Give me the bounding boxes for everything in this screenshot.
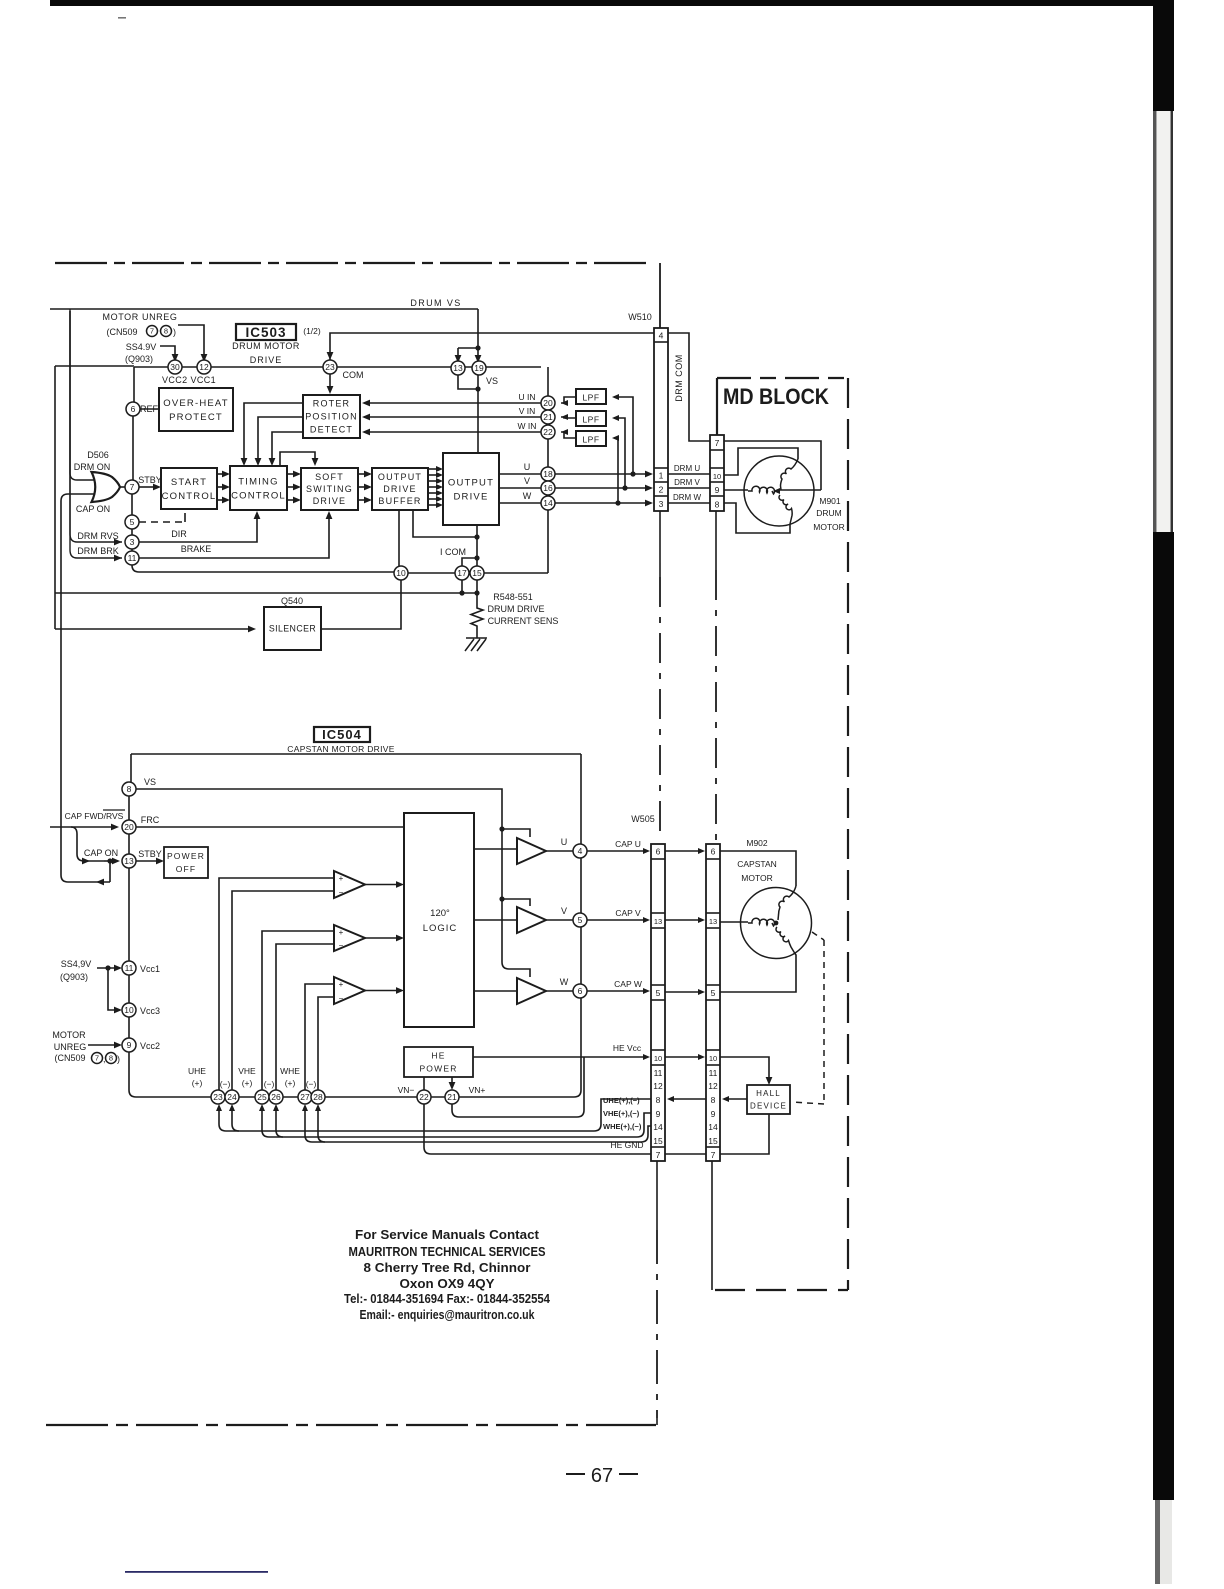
wire LPF1 to pin 20 — [561, 397, 576, 403]
pin 20 FRC — [122, 820, 136, 834]
dashed stub from pin 5 — [139, 521, 184, 523]
pin 13 STBY (capstan) — [122, 854, 136, 868]
svg-text:CAP W: CAP W — [614, 979, 642, 989]
svg-text:M901: M901 — [819, 496, 841, 506]
svg-text:4: 4 — [578, 846, 583, 856]
pin 27 WHE+ — [298, 1090, 312, 1104]
svg-text:DRUM: DRUM — [816, 508, 842, 518]
wire buffer stub to I COM node — [413, 510, 477, 537]
CAP column vertical — [574, 858, 581, 1097]
wire OUTPUT DRIVE W to connector pin 3 — [499, 502, 646, 504]
wire STBY to START CONTROL — [139, 486, 155, 488]
node dot SS4.9V branch — [105, 965, 110, 970]
buffer triangle W — [517, 978, 546, 1004]
vertical cable W510 to W505 left — [659, 511, 661, 577]
wire HALL bottom to pin7 rail — [720, 1114, 769, 1154]
wire logic out W to buffer3 — [474, 990, 517, 992]
node dot DRM U to LPF1 — [630, 471, 635, 476]
capstan motor center dot — [774, 921, 779, 926]
node dot rail 17 — [459, 590, 464, 595]
wire buffer V to pin 5 — [546, 919, 573, 921]
svg-text:MOTOR: MOTOR — [52, 1030, 86, 1040]
svg-text:W: W — [523, 491, 532, 501]
wire CAP ON riser to junction — [109, 861, 111, 882]
svg-text:VN+: VN+ — [469, 1085, 486, 1095]
branch CAP FWD/RVS down to STBY junction — [71, 827, 104, 861]
wire OUTPUT DRIVE U to connector pin 1 — [499, 473, 646, 475]
svg-text:OUTPUT: OUTPUT — [448, 477, 494, 488]
drum motor connector body — [710, 435, 724, 511]
IC pin column vertical 6-7-5-3-11 — [132, 402, 133, 551]
svg-text:Vcc3: Vcc3 — [140, 1006, 160, 1016]
overline on RVS — [103, 809, 125, 811]
pin 22 W IN — [541, 425, 555, 439]
svg-text:SS4.9V: SS4.9V — [126, 342, 157, 352]
svg-text:19: 19 — [474, 363, 484, 373]
svg-text:DEVICE: DEVICE — [750, 1102, 787, 1111]
node dot I COM upper — [474, 534, 479, 539]
wire below pin13 joining pin19 column — [458, 375, 478, 389]
arrow into pin 13 — [455, 355, 462, 363]
svg-text:(Q903): (Q903) — [60, 972, 88, 982]
svg-text:8 Cherry Tree Rd, Chinnor: 8 Cherry Tree Rd, Chinnor — [364, 1260, 531, 1275]
svg-text:15: 15 — [653, 1136, 663, 1146]
svg-text:(+): (+) — [285, 1078, 296, 1088]
svg-text:UHE: UHE — [188, 1066, 206, 1076]
svg-text:8: 8 — [711, 1095, 716, 1105]
svg-text:SS4,9V: SS4,9V — [61, 959, 92, 969]
block ROTER POSITION DETECT — [303, 395, 360, 438]
pin 11 Vcc1 — [122, 961, 136, 975]
block SOFT SWITING DRIVE — [301, 468, 358, 510]
U-IN column vertical — [547, 410, 549, 467]
svg-text:SILENCER: SILENCER — [269, 624, 316, 634]
svg-text:4: 4 — [659, 331, 664, 341]
svg-text:3: 3 — [130, 537, 135, 547]
wire W IN to ROTER — [368, 431, 541, 433]
pin 13 VS — [451, 361, 465, 375]
wire rail y367 corner down through U-IN column — [547, 367, 549, 396]
IC503 title box — [236, 324, 296, 340]
svg-text:13: 13 — [453, 363, 463, 373]
wire COM line from pin4 down into pin 23 — [330, 333, 654, 360]
svg-text:9: 9 — [711, 1109, 716, 1119]
ground symbol — [465, 638, 487, 651]
svg-text:21: 21 — [447, 1092, 457, 1102]
LPF box 2 — [576, 411, 606, 426]
svg-text:11: 11 — [654, 1068, 663, 1078]
wire from SS4.9V to pin 30 — [160, 346, 175, 356]
wire pin1 to drum pin10 — [668, 473, 710, 475]
svg-text:M902: M902 — [746, 838, 768, 848]
svg-text:VS: VS — [144, 777, 156, 787]
svg-text:DRM COM: DRM COM — [674, 354, 684, 402]
wire REF to OVER-HEAT PROTECT — [140, 408, 159, 410]
svg-text:−: − — [339, 994, 344, 1003]
svg-text:OFF: OFF — [176, 864, 197, 874]
node dot CAP ON junction — [107, 858, 112, 863]
wire SS4.9V to pin 11 — [97, 967, 116, 969]
svg-text:Q540: Q540 — [281, 596, 303, 606]
wire W505 pin13 to MD pin13 — [665, 919, 699, 921]
svg-text:7: 7 — [150, 327, 154, 336]
svg-text:14: 14 — [653, 1122, 663, 1132]
block HE POWER — [404, 1047, 473, 1077]
pin 21 V IN — [541, 410, 555, 424]
wire top border corner down to W510 pin4 — [659, 263, 661, 328]
op-amp A1 — [334, 871, 365, 898]
svg-text:8: 8 — [127, 784, 132, 794]
pin 21 VN+ — [445, 1090, 459, 1104]
wire rail left drop to pin 8 — [130, 754, 132, 782]
svg-text:MD BLOCK: MD BLOCK — [723, 384, 829, 409]
pin 23 COM — [323, 360, 337, 374]
wire FRC to logic — [136, 826, 404, 828]
left vertical wire to OR-gate DRM ON input — [70, 309, 94, 480]
LPF box 3 — [576, 431, 606, 446]
node dot DRM W to LPF3 — [615, 500, 620, 505]
wire pin5 to W505 pin 13 — [587, 919, 644, 921]
wire op3 output to logic — [365, 990, 398, 992]
svg-text:STBY: STBY — [138, 849, 162, 859]
MD BLOCK right border — [847, 378, 849, 1290]
wire OR gate output to pin 7 — [120, 486, 125, 488]
wire LPF1 feedback from DRM U — [614, 397, 633, 474]
wire logic out V to buffer2 — [474, 919, 517, 921]
svg-text:15: 15 — [708, 1136, 718, 1146]
wire branch down to pin 10 — [108, 968, 116, 1010]
wire silencer input — [55, 628, 249, 630]
block SILENCER — [264, 607, 321, 650]
pin 6 W — [573, 984, 587, 998]
svg-text:23: 23 — [325, 362, 335, 372]
svg-text:120°: 120° — [430, 908, 450, 919]
svg-text:5: 5 — [656, 988, 661, 998]
wire VCC rail corner down to IC pin column — [133, 367, 135, 402]
wire pins 17 15 down to rail y593 — [462, 580, 477, 593]
pin 5 — [125, 515, 139, 529]
svg-text:SWITING: SWITING — [306, 484, 353, 494]
svg-text:13: 13 — [654, 917, 662, 926]
wire buffer bottom to pin10 — [398, 510, 400, 566]
svg-text:11: 11 — [709, 1068, 718, 1078]
svg-text:6: 6 — [656, 847, 661, 857]
svg-text:3: 3 — [659, 499, 664, 509]
svg-text:12: 12 — [708, 1081, 718, 1091]
capstan MD connector body — [706, 844, 720, 1161]
block 120 LOGIC — [404, 813, 474, 1027]
svg-text:ROTER: ROTER — [313, 399, 351, 409]
svg-text:67: 67 — [591, 1465, 613, 1487]
wire pin26 to op2- — [276, 944, 334, 1090]
svg-text:(−): (−) — [306, 1079, 317, 1089]
svg-text:MOTOR: MOTOR — [741, 873, 772, 883]
svg-text:27: 27 — [300, 1092, 310, 1102]
svg-text:LPF: LPF — [582, 415, 599, 425]
pin 23 UHE+ — [211, 1090, 225, 1104]
svg-text:IC503: IC503 — [245, 325, 286, 340]
svg-text:VHE(+),(−): VHE(+),(−) — [603, 1109, 640, 1118]
wire drum pin7 loop around motor — [724, 441, 821, 490]
svg-text:(−): (−) — [264, 1079, 275, 1089]
left vertical wire to BRAKE pin 11 — [70, 311, 122, 558]
svg-text:CAP U: CAP U — [615, 839, 641, 849]
svg-text:7: 7 — [715, 438, 720, 448]
svg-text:DRM W: DRM W — [673, 493, 701, 502]
svg-text:25: 25 — [257, 1092, 267, 1102]
svg-text:20: 20 — [543, 398, 553, 408]
wire V IN to ROTER — [368, 416, 541, 418]
svg-text:−: − — [339, 941, 344, 950]
svg-text:10: 10 — [396, 568, 406, 578]
svg-text:DRIVE: DRIVE — [250, 355, 283, 365]
svg-text:10: 10 — [124, 1005, 134, 1015]
small stray mark top left — [118, 17, 126, 19]
svg-text:6: 6 — [711, 847, 716, 857]
wire WHE rail to W505 row 14 — [305, 1110, 651, 1142]
wire DRUM VS drop to VS pins — [458, 309, 478, 356]
pin 5 V — [573, 913, 587, 927]
wire U IN to ROTER — [368, 402, 541, 404]
svg-text:CAP ON: CAP ON — [76, 504, 110, 514]
svg-text:UNREG: UNREG — [54, 1042, 87, 1052]
motor M901 lower winding — [779, 495, 792, 524]
node dot I COM lower — [474, 555, 479, 560]
wire VS column down to OUTPUT DRIVE top — [477, 375, 479, 453]
arrow into pin 19 — [475, 355, 482, 363]
wire VCC rail y367 through pins 30 12 23 13 19 — [134, 366, 541, 368]
svg-text:13: 13 — [124, 856, 134, 866]
resistor R548-551 — [471, 593, 483, 638]
page right black bar upper segment — [1153, 0, 1174, 111]
svg-text:U: U — [561, 837, 568, 847]
wire MD pin5 to capstan motor bottom coil — [720, 952, 796, 992]
wire VHE rail to W505 row 9 — [262, 1110, 651, 1137]
block OVER-HEAT PROTECT — [159, 388, 233, 431]
svg-text:5: 5 — [578, 915, 583, 925]
svg-text:DRM RVS: DRM RVS — [77, 531, 118, 541]
pin 11 BRAKE — [125, 551, 139, 565]
svg-text:BRAKE: BRAKE — [181, 544, 212, 554]
motor M901 center arrow — [773, 488, 780, 494]
svg-text:MOTOR UNREG: MOTOR UNREG — [103, 312, 178, 322]
capstan motor left winding — [748, 918, 775, 926]
svg-text:(−): (−) — [220, 1079, 231, 1089]
svg-text:18: 18 — [543, 469, 553, 479]
svg-text:UHE(+),(−): UHE(+),(−) — [603, 1096, 640, 1105]
wire UHE rail to W505 row 8 — [219, 1099, 651, 1131]
svg-text:LOGIC: LOGIC — [423, 923, 458, 934]
svg-text:9: 9 — [656, 1109, 661, 1119]
wire LPF2 to pin 21 — [561, 417, 576, 418]
svg-text:WHE(+),(−): WHE(+),(−) — [603, 1122, 642, 1131]
svg-text:22: 22 — [543, 427, 553, 437]
wire pin3 to drum pin8 — [668, 502, 710, 504]
svg-text:Oxon OX9 4QY: Oxon OX9 4QY — [400, 1276, 495, 1291]
page right black bar lower segment — [1153, 532, 1174, 1500]
wire drum pin8 loop to motor bottom coil — [724, 503, 790, 533]
wire VN+ loop to HE Vcc line — [452, 1057, 584, 1117]
op-amp A2 — [334, 925, 365, 951]
node dot rail 15 — [474, 590, 479, 595]
svg-text:8: 8 — [656, 1095, 661, 1105]
svg-text:VHE: VHE — [238, 1066, 256, 1076]
svg-text:PROTECT: PROTECT — [169, 412, 223, 423]
wire rail right drop through CAP U column — [580, 754, 582, 844]
wire HE POWER to W505 pin 10 — [473, 1056, 644, 1058]
MD BLOCK bottom border — [715, 1289, 848, 1291]
svg-text:10: 10 — [654, 1054, 662, 1063]
svg-text:D506: D506 — [87, 450, 109, 460]
svg-text:DRUM DRIVE: DRUM DRIVE — [487, 604, 544, 614]
svg-text:5: 5 — [130, 517, 135, 527]
svg-text:10: 10 — [709, 1054, 717, 1063]
pin 22 VN- — [417, 1090, 431, 1104]
svg-text:HE: HE — [431, 1050, 445, 1060]
svg-text:LPF: LPF — [582, 435, 599, 445]
svg-text:DRM ON: DRM ON — [74, 462, 111, 472]
svg-text:CAP FWD/RVS: CAP FWD/RVS — [65, 811, 124, 821]
svg-text:DRIVE: DRIVE — [313, 496, 347, 506]
page number 67 — [566, 1473, 585, 1475]
svg-text:Vcc1: Vcc1 — [140, 964, 160, 974]
pin 3 DIR — [125, 535, 139, 549]
pin 26 VHE- — [269, 1090, 283, 1104]
node dot VS branch1 — [499, 826, 504, 831]
wire LPF3 to pin 22 — [561, 432, 576, 438]
dashed link motor to hall device — [812, 932, 824, 940]
buffer triangle V — [517, 907, 546, 933]
svg-text:22: 22 — [419, 1092, 429, 1102]
wire HE POWER bottom to pin 22 — [423, 1077, 425, 1090]
svg-text:HE GND: HE GND — [610, 1140, 643, 1150]
svg-text:DRM V: DRM V — [674, 478, 700, 487]
svg-text:COM: COM — [343, 370, 364, 380]
svg-text:8: 8 — [715, 500, 720, 510]
svg-text:17: 17 — [457, 568, 467, 578]
svg-text:14: 14 — [543, 498, 553, 508]
svg-text:20: 20 — [124, 822, 134, 832]
pin 16 V — [541, 481, 555, 495]
LPF box 1 — [576, 389, 606, 404]
svg-text:(Q903): (Q903) — [125, 354, 153, 364]
left vertical wire CAP ON from OR gate down to capstan section — [61, 494, 110, 882]
pin 9 Vcc2 — [122, 1038, 136, 1052]
svg-text:9: 9 — [127, 1040, 132, 1050]
wire pin23 to op1+ — [219, 878, 334, 1090]
pin 8 VS (capstan) — [122, 782, 136, 796]
svg-text:DRIVE: DRIVE — [453, 491, 488, 502]
svg-text:CAPSTAN MOTOR DRIVE: CAPSTAN MOTOR DRIVE — [287, 744, 394, 754]
bridge wire TIMING to SOFT over top — [280, 452, 315, 466]
buffer triangle U — [517, 838, 546, 864]
wire pin24 to op1- — [232, 891, 334, 1090]
svg-text:8: 8 — [109, 1054, 113, 1063]
wire A: top horizontal DRUM VS wire — [50, 308, 478, 310]
svg-text:Vcc2: Vcc2 — [140, 1041, 160, 1051]
vertical cable MD right — [715, 511, 717, 570]
MD column below pin7 to MD bottom — [711, 1161, 713, 1290]
svg-text:DRM BRK: DRM BRK — [77, 546, 119, 556]
wire ROTER line V to TIMING drop — [258, 417, 303, 460]
svg-text:6: 6 — [578, 986, 583, 996]
svg-text:CONTROL: CONTROL — [231, 490, 286, 501]
svg-text:7: 7 — [711, 1150, 716, 1160]
svg-text:): ) — [173, 327, 176, 337]
motor M901 upper winding — [781, 459, 799, 490]
block TIMING CONTROL — [230, 466, 287, 510]
svg-text:CURRENT SENS: CURRENT SENS — [488, 616, 559, 626]
svg-text:(1/2): (1/2) — [303, 326, 321, 336]
wire OUTPUT DRIVE V to connector pin 2 — [499, 487, 646, 489]
svg-text:For Service Manuals Contact: For Service Manuals Contact — [355, 1227, 540, 1242]
svg-text:DRIVE: DRIVE — [383, 484, 417, 494]
block OUTPUT DRIVE (drum) — [443, 453, 499, 525]
wire pin4 to W505 pin 6 — [587, 850, 644, 852]
wire DIR to TIMING bottom — [139, 517, 257, 542]
svg-text:SOFT: SOFT — [315, 472, 344, 482]
wire W505 pin10 to MD pin10 — [665, 1056, 699, 1058]
motor M901 body circle — [744, 456, 814, 526]
svg-text:+: + — [339, 874, 344, 883]
wire STBY to POWER OFF — [136, 860, 158, 862]
svg-text:MOTOR: MOTOR — [813, 522, 844, 532]
svg-text:14: 14 — [708, 1122, 718, 1132]
svg-text:10: 10 — [713, 472, 721, 481]
wire MD pin10 to HALL DEVICE top — [720, 1057, 769, 1079]
svg-text:30: 30 — [170, 362, 180, 372]
svg-text:OVER-HEAT: OVER-HEAT — [163, 398, 229, 409]
arrows START to TIMING — [217, 473, 224, 475]
wire op2 output to logic — [365, 937, 398, 939]
wire BRAKE to SOFT bottom — [139, 517, 329, 558]
svg-text:15: 15 — [472, 568, 482, 578]
svg-text:POSITION: POSITION — [305, 412, 358, 422]
wire LPF3 feedback from DRM W — [614, 438, 618, 503]
wire MD pin8 to W505 pin8 — [673, 1098, 706, 1100]
left rail vertical-1 from VCC stub down to silencer input — [54, 366, 56, 629]
wire LPF2 feedback from DRM V — [614, 418, 625, 488]
svg-text:8: 8 — [164, 327, 168, 336]
connector W510 body — [654, 328, 668, 511]
svg-text:2: 2 — [659, 485, 664, 495]
svg-text:(CN509: (CN509 — [54, 1053, 85, 1063]
node VS junction below pins — [475, 386, 480, 391]
wire HE POWER bottom arrow into pin 21 — [451, 1077, 453, 1084]
wire buffer W to pin 6 — [546, 990, 573, 992]
pin 30 VCC2 — [168, 360, 182, 374]
svg-text:POWER: POWER — [167, 851, 205, 861]
wire CAP FWD/RVS to pin 20 — [50, 826, 113, 828]
wire pin7 to pin7 HE GND — [665, 1153, 706, 1155]
capstan motor upper winding — [778, 886, 796, 920]
svg-text:V IN: V IN — [519, 406, 536, 416]
capstan motor M902 body circle — [741, 888, 812, 959]
MD BLOCK left border upper — [716, 378, 718, 435]
svg-text:9: 9 — [715, 485, 720, 495]
wire pin27 to op3+ — [305, 984, 334, 1090]
connector W505 body — [651, 844, 665, 1161]
wire VS top rail IC504 — [131, 753, 581, 755]
left rail vertical-1 top stub — [55, 365, 134, 367]
svg-text:TIMING: TIMING — [238, 476, 278, 487]
svg-text:START: START — [171, 477, 207, 488]
wire silencer output to pin 10 column — [321, 580, 401, 629]
wire ROTER line W to TIMING drop — [272, 432, 303, 460]
svg-text:FRC: FRC — [141, 815, 160, 825]
svg-text:HALL: HALL — [756, 1089, 781, 1098]
MD BLOCK top border — [717, 377, 848, 379]
